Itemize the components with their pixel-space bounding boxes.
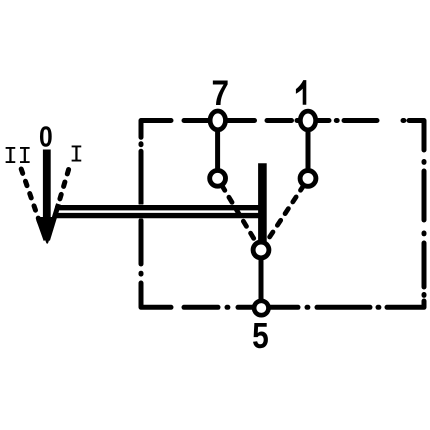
wire top edge long dash [344, 118, 377, 123]
terminal 1 circle [300, 111, 315, 130]
switch lever position II solid lower part [39, 219, 47, 240]
wire right edge dot 2 [422, 231, 427, 237]
wire top edge dot 2 [401, 118, 407, 123]
wire right edge dot 1 [422, 159, 427, 165]
wire terminal 1 to contact [306, 123, 311, 170]
dashed contact path 1 to common [266, 187, 303, 243]
actuator bar [258, 163, 267, 246]
wire bottom edge solid through terminal 5 [238, 305, 298, 310]
switch lever position I dashed line [58, 170, 69, 208]
switch lever position I solid lower part [48, 204, 59, 240]
enclosure dash-dot box [141, 121, 424, 308]
wire right edge dot 3 [422, 292, 427, 298]
wire bottom edge long dash [317, 305, 370, 310]
wire linkage lower line [55, 213, 264, 218]
svg-text:II: II [3, 144, 32, 171]
terminal 5 circle [254, 301, 268, 315]
switch lever position II dashed line [21, 169, 41, 226]
switch lever arrow tip [37, 217, 57, 244]
wire top edge dash before terminal 1 [267, 118, 292, 123]
wire bottom edge dash [184, 305, 218, 310]
contact circle left [210, 170, 226, 186]
wire common to terminal 5 [259, 252, 264, 305]
switch lever position 0 solid line [43, 150, 51, 237]
wire top edge dash + solid through terminal 7 [184, 118, 255, 123]
wire top edge solid stub right of terminal 1 [297, 118, 329, 123]
wire bottom edge dot [376, 305, 382, 310]
wire bottom edge corner dash bottom-left [141, 283, 171, 307]
svg-text:5: 5 [252, 316, 269, 356]
terminal 7 circle [210, 111, 225, 130]
svg-text:I: I [69, 143, 83, 170]
wire terminal 7 to contact [215, 123, 220, 170]
svg-text:7: 7 [211, 74, 229, 113]
wire top edge corner dash top-left [141, 121, 171, 138]
wire left edge dash above band [139, 151, 144, 203]
contact circle right [300, 171, 316, 187]
wire left edge dot 3 [139, 271, 144, 277]
mechanical linkage double line (erases box edge beneath) [57, 205, 264, 219]
wire right edge dash 2 [422, 243, 427, 287]
wire left edge dash below band [139, 221, 144, 265]
wire right edge dash 1 [422, 171, 427, 220]
wire top edge dot [334, 118, 340, 123]
wire top edge corner dash top-right [409, 121, 424, 151]
wire bottom edge corner dash bottom-right [387, 301, 424, 307]
dashed contact path 7 to common [223, 187, 257, 244]
common contact circle [253, 242, 269, 258]
label 1 [296, 80, 306, 105]
svg-text:0: 0 [39, 120, 53, 152]
wire bottom edge dot 2 [305, 305, 311, 310]
wire left edge dot 1 [139, 141, 144, 147]
wire linkage upper line [59, 205, 264, 210]
wire bottom edge dot 3 [225, 305, 231, 310]
